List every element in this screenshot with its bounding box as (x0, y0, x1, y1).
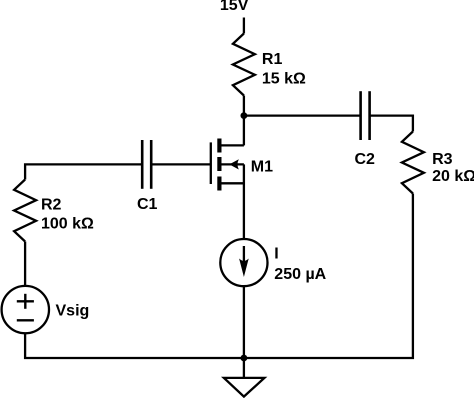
svg-text:M1: M1 (251, 159, 273, 176)
svg-text:20 kΩ: 20 kΩ (432, 168, 474, 185)
svg-text:100 kΩ: 100 kΩ (41, 215, 94, 232)
current source I (220, 239, 267, 286)
drain lead (220, 144, 244, 146)
wire R1 bottom to drain node and down to M1 drain corner (243, 96, 245, 146)
arrow shaft (243, 246, 245, 266)
svg-text:250 µA: 250 µA (274, 266, 326, 283)
source lead (220, 182, 244, 184)
wire M1 body/source down to current source (243, 164, 245, 239)
wire R2 bottom to Vsig top (24, 242, 26, 286)
wire drain node to C2 left plate (244, 114, 361, 116)
wire Vsig bottom to bottom bus (25, 333, 244, 358)
wire C1 left plate to left rail corner (25, 164, 142, 179)
svg-text:15V: 15V (220, 0, 249, 14)
gate line (210, 142, 212, 184)
wire C2 right plate to right rail corner (370, 116, 413, 132)
svg-text:I: I (274, 246, 278, 263)
channel bar middle (217, 157, 221, 171)
svg-text:R3: R3 (432, 151, 453, 168)
channel bar top (217, 139, 221, 153)
node ground junction dot (241, 355, 248, 362)
svg-text:15 kΩ: 15 kΩ (262, 70, 306, 87)
svg-text:C2: C2 (355, 151, 376, 168)
svg-text:Vsig: Vsig (56, 303, 90, 320)
channel bar bottom (217, 177, 221, 191)
ground (224, 358, 265, 397)
resistor R3 (402, 132, 424, 194)
minus sign (17, 319, 34, 321)
svg-text:R1: R1 (262, 51, 283, 68)
svg-text:C1: C1 (137, 196, 158, 213)
resistor R2 (14, 180, 36, 242)
resistor R1 (233, 34, 255, 96)
wire R3 bottom to bottom bus (244, 194, 413, 359)
capacitor C2 (361, 91, 370, 140)
arrowhead down (239, 259, 249, 278)
wire gate to C1 right plate (151, 163, 211, 165)
wire current source bottom to ground node (243, 286, 245, 358)
body arrowhead (229, 159, 239, 169)
wire from 15V to R1 top (243, 18, 245, 34)
plus sign (17, 300, 34, 302)
node drain junction dot (241, 112, 248, 119)
transistor M1 (211, 139, 244, 191)
body lead (220, 163, 244, 165)
svg-text:R2: R2 (41, 197, 62, 214)
capacitor C1 (142, 140, 151, 189)
voltage source Vsig (2, 286, 49, 333)
